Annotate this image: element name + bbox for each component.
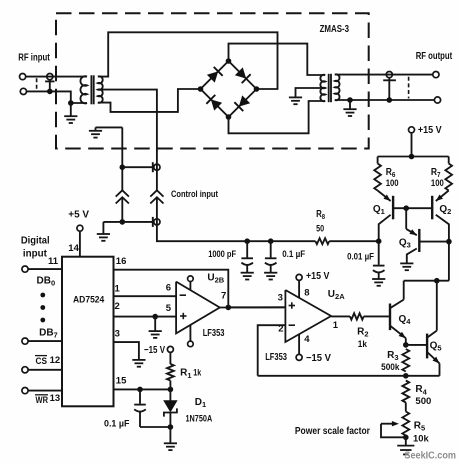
svg-text:ZMAS-3: ZMAS-3 — [320, 24, 350, 35]
svg-text:WR: WR — [36, 395, 49, 406]
svg-text:4: 4 — [304, 334, 310, 345]
svg-text:14: 14 — [68, 243, 79, 254]
svg-text:5: 5 — [166, 303, 172, 314]
svg-text:100: 100 — [386, 178, 399, 189]
svg-text:input: input — [23, 249, 48, 260]
svg-text:500: 500 — [415, 396, 431, 407]
svg-text:−15 V: −15 V — [306, 353, 331, 364]
svg-text:1k: 1k — [193, 368, 202, 379]
svg-text:13: 13 — [50, 393, 61, 404]
svg-text:Control input: Control input — [171, 189, 219, 200]
svg-text:0.1 µF: 0.1 µF — [104, 419, 130, 430]
svg-text:1N750A: 1N750A — [186, 413, 213, 424]
svg-text:LF353: LF353 — [203, 328, 225, 339]
svg-text:500k: 500k — [381, 362, 400, 373]
svg-text:Digital: Digital — [21, 236, 50, 247]
svg-text:+15 V: +15 V — [418, 125, 442, 136]
svg-text:0.01 µF: 0.01 µF — [347, 252, 374, 263]
svg-text:CS: CS — [36, 356, 48, 367]
svg-text:1: 1 — [115, 284, 121, 295]
svg-text:0.1 µF: 0.1 µF — [282, 249, 305, 260]
svg-text:10k: 10k — [413, 434, 429, 445]
svg-text:1000 pF: 1000 pF — [208, 249, 236, 260]
svg-text:1k: 1k — [358, 339, 368, 350]
svg-text:12: 12 — [50, 355, 61, 366]
svg-text:LF353: LF353 — [265, 352, 287, 363]
svg-text:3: 3 — [278, 293, 283, 304]
svg-text:6: 6 — [166, 282, 171, 293]
svg-text:7: 7 — [221, 291, 226, 302]
svg-text:2: 2 — [278, 323, 283, 334]
svg-text:RF output: RF output — [416, 51, 453, 62]
svg-text:8: 8 — [304, 288, 309, 299]
svg-text:RF input: RF input — [18, 53, 50, 64]
svg-text:100: 100 — [431, 178, 444, 189]
svg-text:15: 15 — [116, 376, 127, 387]
svg-text:16: 16 — [116, 256, 127, 267]
svg-text:3: 3 — [115, 329, 120, 340]
svg-text:AD7524: AD7524 — [73, 295, 105, 306]
svg-text:+5 V: +5 V — [68, 209, 89, 220]
svg-text:+15 V: +15 V — [306, 271, 330, 282]
svg-text:1: 1 — [333, 320, 339, 331]
svg-text:50: 50 — [316, 224, 324, 235]
svg-text:−15 V: −15 V — [144, 345, 165, 356]
svg-text:SeekIC.com: SeekIC.com — [404, 450, 456, 462]
svg-text:Power scale factor: Power scale factor — [295, 426, 370, 437]
svg-text:2: 2 — [115, 301, 120, 312]
svg-text:11: 11 — [48, 256, 59, 267]
